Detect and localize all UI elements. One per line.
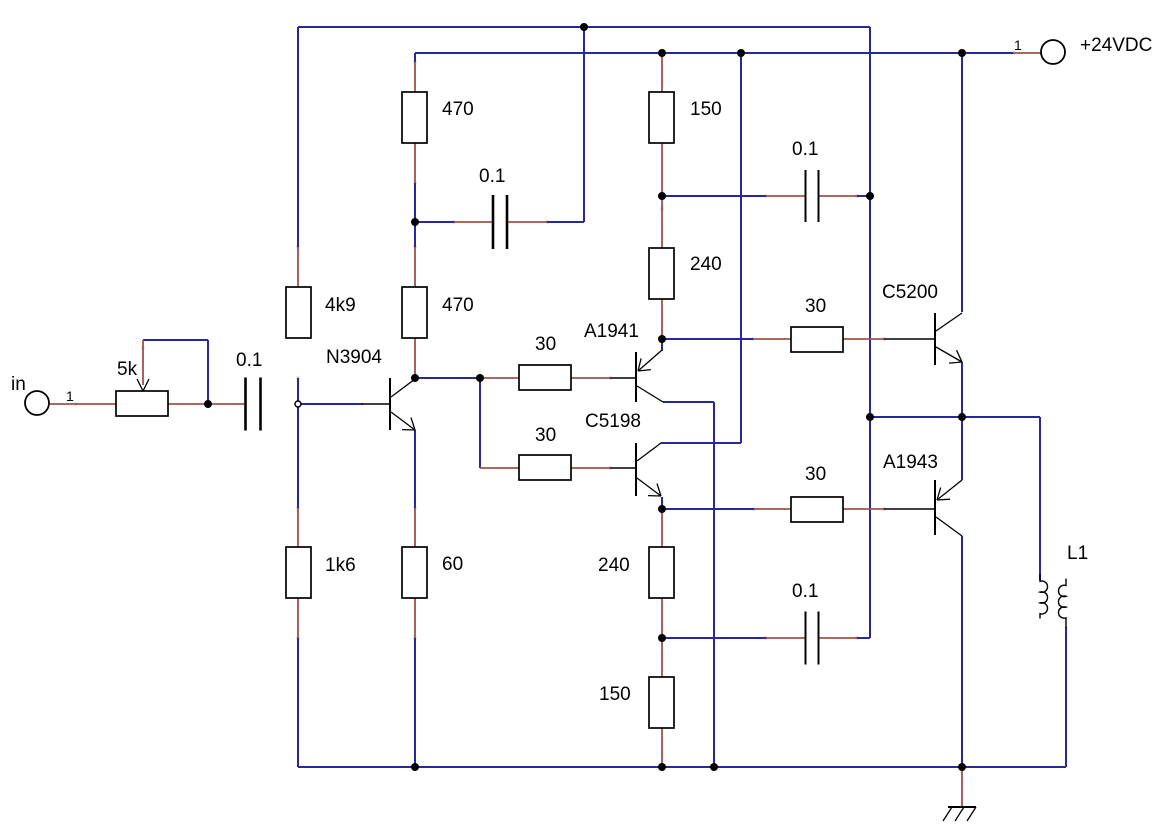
svg-text:0.1: 0.1 bbox=[479, 166, 505, 187]
svg-text:0.1: 0.1 bbox=[792, 581, 818, 602]
svg-text:60: 60 bbox=[442, 554, 463, 575]
svg-text:A1943: A1943 bbox=[883, 452, 938, 473]
svg-text:30: 30 bbox=[805, 464, 826, 485]
svg-text:C5200: C5200 bbox=[882, 282, 938, 303]
svg-text:30: 30 bbox=[535, 425, 556, 446]
svg-text:30: 30 bbox=[535, 334, 556, 355]
svg-text:1k6: 1k6 bbox=[325, 555, 356, 576]
svg-text:470: 470 bbox=[442, 295, 474, 316]
svg-text:240: 240 bbox=[690, 254, 722, 275]
svg-text:4k9: 4k9 bbox=[325, 295, 356, 316]
svg-text:+24VDC: +24VDC bbox=[1080, 35, 1152, 56]
svg-text:30: 30 bbox=[805, 296, 826, 317]
svg-text:L1: L1 bbox=[1067, 543, 1088, 564]
svg-text:150: 150 bbox=[599, 684, 631, 705]
svg-text:N3904: N3904 bbox=[326, 347, 382, 368]
svg-text:0.1: 0.1 bbox=[792, 139, 818, 160]
svg-text:470: 470 bbox=[442, 99, 474, 120]
svg-text:240: 240 bbox=[598, 555, 630, 576]
svg-text:1: 1 bbox=[66, 388, 74, 404]
svg-text:A1941: A1941 bbox=[584, 321, 639, 342]
svg-text:5k: 5k bbox=[117, 359, 138, 380]
svg-text:150: 150 bbox=[690, 99, 722, 120]
svg-text:0.1: 0.1 bbox=[236, 350, 262, 371]
svg-text:in: in bbox=[11, 374, 26, 395]
svg-text:1: 1 bbox=[1014, 37, 1022, 53]
svg-text:C5198: C5198 bbox=[585, 411, 641, 432]
